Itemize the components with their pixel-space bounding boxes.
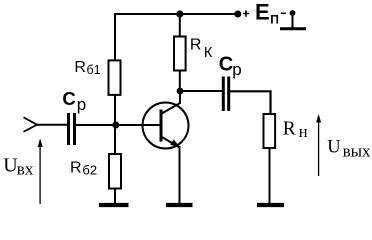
svg-text:р: р: [77, 95, 86, 114]
wire collector node to Cp2: [180, 90, 222, 92]
svg-text:R: R: [190, 37, 202, 54]
arrow Uvx: [38, 139, 43, 205]
transistor base bar: [160, 110, 163, 142]
svg-text:R: R: [283, 119, 296, 140]
node rail end dot: [234, 11, 241, 18]
capacitor Cp1: [69, 113, 75, 145]
svg-text:н: н: [299, 122, 308, 141]
wire left branch upper (rail to Rb1): [114, 13, 116, 62]
ground under Rn: [257, 203, 284, 207]
svg-text:R: R: [74, 59, 86, 76]
wire input left of Cp1: [36, 124, 68, 126]
svg-text:C: C: [219, 54, 233, 76]
svg-text:вх: вх: [17, 160, 34, 179]
wire emitter to ground: [179, 146, 181, 203]
resistor Rk: [174, 37, 186, 71]
resistor Rn: [264, 114, 276, 148]
wire Rn to ground: [269, 148, 271, 203]
svg-text:C: C: [62, 88, 75, 109]
svg-text:U: U: [327, 137, 340, 157]
wire Rk branch upper: [179, 14, 181, 37]
wire left branch lower (Rb2 to ground): [114, 189, 116, 204]
label minus of supply: [281, 12, 286, 14]
wire base (Cp1 to transistor base): [75, 124, 160, 126]
svg-text:E: E: [255, 0, 270, 25]
ground under emitter: [166, 203, 193, 207]
node rail junction dot at Rk: [176, 10, 183, 17]
svg-text:вых: вых: [343, 142, 371, 161]
svg-text:б2: б2: [82, 162, 97, 177]
supply negative terminal dot: [290, 10, 296, 16]
wire supply terminal: [292, 13, 294, 28]
transistor VT1 circle: [143, 103, 189, 149]
svg-text:К: К: [204, 45, 213, 61]
capacitor Cp2: [223, 77, 228, 112]
transistor collector lead: [161, 91, 180, 114]
transistor emitter arrowhead: [170, 139, 180, 147]
svg-text:б1: б1: [87, 63, 101, 77]
ground supply terminal bar: [280, 27, 306, 30]
arrow Uvyx: [316, 114, 321, 176]
label + of supply: [243, 10, 249, 16]
input terminal chevron: [24, 117, 38, 132]
wire left branch middle (Rb1 to base node): [114, 95, 116, 154]
wire top supply rail: [114, 13, 238, 15]
resistor Rb2: [109, 154, 121, 189]
ground under Rb2: [99, 203, 129, 207]
wire Rk branch lower (to collector node): [179, 71, 181, 92]
transistor emitter lead: [161, 137, 180, 148]
svg-text:R: R: [70, 160, 82, 177]
node collector junction dot: [177, 88, 184, 95]
resistor Rb1: [109, 60, 121, 95]
svg-text:П: П: [270, 13, 279, 27]
svg-text:р: р: [232, 60, 241, 79]
wire Cp2 to output corner: [229, 91, 271, 114]
node base junction dot: [112, 122, 119, 129]
